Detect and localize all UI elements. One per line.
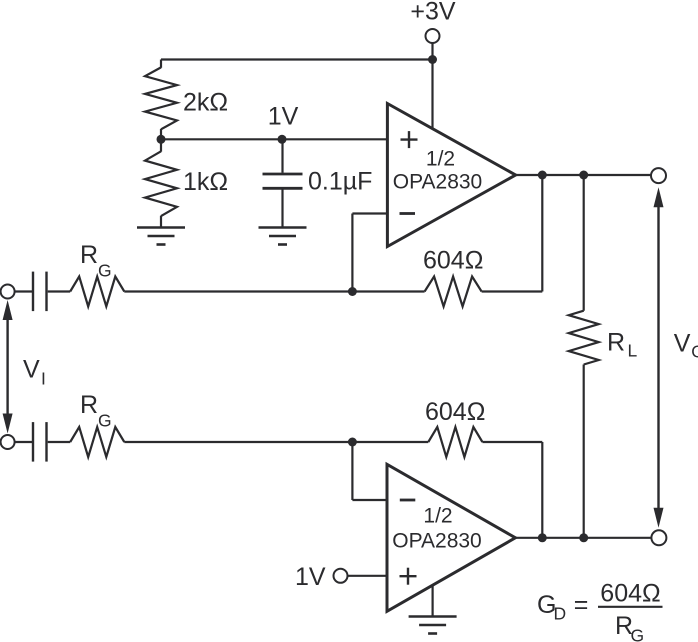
resistor 2kOhm [145, 67, 177, 129]
terminal: output - [651, 530, 666, 545]
capacitor (top input coupling) [32, 272, 34, 312]
U1 - input symbol [400, 212, 416, 215]
resistor RG (bottom) [70, 427, 124, 457]
wire: node to 604 bottom [352, 441, 428, 443]
wire: U2 output [515, 537, 651, 539]
formula fraction bar [598, 606, 663, 608]
U2 - input symbol [400, 499, 416, 502]
node: U2 output/RL [579, 533, 588, 542]
wire: into U2 - input [352, 499, 387, 501]
node: U1 output/RL [579, 171, 588, 180]
wire: 1V to U2 + input [348, 575, 388, 577]
terminal: output + [651, 168, 666, 183]
terminal: input - (V_I bottom) [1, 435, 15, 449]
svg-text:OPA2830: OPA2830 [392, 530, 482, 553]
wire: U1 output [516, 174, 652, 176]
svg-text:1V: 1V [268, 103, 299, 131]
ground (under 1k) [137, 226, 185, 229]
wire: feedback down from U1 output [541, 175, 543, 292]
wire: cap to RG (bottom) [48, 441, 70, 443]
svg-text:V: V [674, 330, 691, 358]
terminal: input + (V_I top) [1, 285, 15, 299]
node: U2 inverting input junction [348, 438, 357, 447]
U2 + input symbol [400, 575, 417, 577]
svg-text:1V: 1V [295, 563, 326, 591]
V_I double arrow [6, 318, 8, 416]
svg-text:G: G [98, 411, 112, 431]
V_O double arrow [657, 206, 659, 509]
svg-text:G: G [98, 261, 112, 281]
wire: up to U1 - input [351, 214, 353, 292]
wire: cap stem bottom [281, 190, 283, 228]
node: 1V bias junction [157, 135, 166, 144]
svg-text:R: R [607, 329, 625, 357]
svg-text:+3V: +3V [410, 0, 456, 26]
svg-text:I: I [41, 369, 46, 389]
wire: feedback down to U2 output [541, 442, 543, 538]
op-amp U2 1/2 OPA2830 (bottom) [387, 464, 515, 611]
svg-text:O: O [691, 342, 698, 362]
svg-text:1/2: 1/2 [423, 505, 452, 528]
node: capacitor top junction [278, 135, 287, 144]
svg-text:D: D [554, 604, 567, 624]
svg-text:1kΩ: 1kΩ [183, 168, 228, 196]
op-amp U1 1/2 OPA2830 (top) [387, 104, 515, 247]
wire: input to coupling cap (bottom) [15, 441, 32, 443]
resistor 1kOhm [145, 151, 177, 216]
wire: into U1 - input [352, 212, 387, 214]
svg-text:604Ω: 604Ω [425, 398, 485, 426]
terminal: +3V [426, 29, 440, 43]
svg-text:R: R [80, 241, 98, 269]
wire: cap stem top [281, 139, 283, 173]
ground (under cap) [259, 226, 307, 229]
svg-text:R: R [80, 391, 98, 419]
svg-text:V: V [23, 356, 40, 384]
wire: input to coupling cap [15, 290, 32, 292]
svg-text:OPA2830: OPA2830 [393, 171, 483, 194]
wire: RL bottom stem [583, 365, 585, 538]
resistor RL [569, 311, 599, 365]
wire: feedback to 604 top [482, 290, 543, 292]
wire: U2 ground stem [432, 585, 434, 616]
wire: +3V stem to op-amp U1 supply [431, 43, 433, 130]
U1 + input symbol [401, 138, 418, 140]
wire: stem to R 2k [160, 60, 162, 68]
wire: +3V rail horizontal [161, 58, 433, 60]
wire: RG to U2 inverting node [124, 441, 352, 443]
resistor 604Ohm (bottom feedback) [428, 427, 482, 457]
wire: RL top stem [583, 175, 585, 311]
svg-text:0.1µF: 0.1µF [308, 168, 372, 196]
ground (under U2) [409, 615, 457, 618]
svg-text:=: = [574, 591, 589, 619]
capacitor (bottom input coupling) [32, 422, 34, 462]
wire: 1k to ground [160, 216, 162, 228]
wire: bias node to U1 + input [161, 138, 387, 140]
svg-text:2kΩ: 2kΩ [183, 89, 228, 117]
node: +3V junction [428, 55, 437, 64]
wire: cap to RG [48, 290, 70, 292]
resistor RG (top) [70, 277, 124, 307]
node: U2 output/feedback [538, 533, 547, 542]
wire: stem to R 1k [160, 139, 162, 151]
svg-text:G: G [631, 626, 645, 642]
wire: down to U2 - input [351, 442, 353, 500]
node: U1 inverting input junction [348, 287, 357, 296]
svg-text:604Ω: 604Ω [600, 580, 660, 608]
wire: 604 top to inverting node [352, 290, 424, 292]
svg-text:604Ω: 604Ω [423, 247, 483, 275]
node: U1 output/feedback [538, 171, 547, 180]
svg-text:1/2: 1/2 [426, 148, 455, 171]
terminal: 1V bias input [334, 569, 348, 583]
svg-text:L: L [628, 341, 638, 361]
wire: 604 bottom to feedback drop [482, 441, 542, 443]
wire: 2k to node [160, 129, 162, 139]
wire: RG to inverting node [124, 290, 352, 292]
resistor 604Ohm (top feedback) [425, 277, 482, 307]
capacitor 0.1uF [263, 173, 303, 176]
